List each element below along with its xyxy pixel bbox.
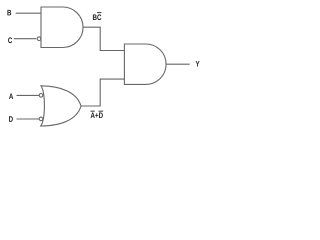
label input B — [7, 10, 11, 16]
label output Y — [196, 61, 200, 67]
inverter bubble on D input — [39, 117, 43, 121]
wire U1 output to node BC̄ — [83, 27, 124, 50]
wire U3 output — [166, 63, 190, 65]
label input A — [9, 94, 13, 100]
node BC̄ label — [93, 14, 101, 20]
overbar on A of Ā+D̄ — [91, 110, 95, 113]
node Ā+D̄ label — [91, 113, 103, 119]
wire input D — [17, 118, 40, 120]
overbar on C of BC̄ — [97, 11, 101, 14]
label input D — [9, 116, 13, 122]
AND gate U1 — [41, 7, 83, 48]
AND gate U3 — [124, 44, 166, 84]
wire input B — [16, 12, 41, 14]
label input C — [8, 37, 12, 43]
inverter bubble on C input — [37, 37, 41, 41]
wire input C — [14, 38, 37, 40]
wire input A — [17, 94, 40, 96]
inverter bubble on A input — [39, 94, 43, 98]
wire U2 output to node Ā+D̄ — [81, 79, 124, 106]
OR gate U2 — [41, 86, 81, 126]
overbar on D of Ā+D̄ — [99, 110, 104, 113]
